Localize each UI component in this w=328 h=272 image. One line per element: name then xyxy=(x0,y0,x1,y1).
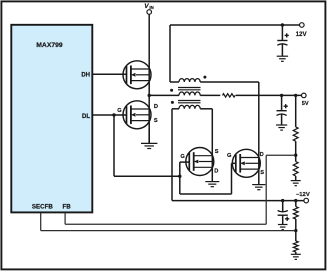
junction dot 12V cap xyxy=(281,23,284,26)
pin label G of Q4 xyxy=(227,153,232,159)
wire 12V rail vertical drop xyxy=(169,25,171,82)
transistor Q1 high-side MOSFET xyxy=(123,61,151,89)
transistor Q4 secondary rectifier MOSFET xyxy=(232,149,260,177)
pin label D of Q2 xyxy=(154,104,158,110)
wire DL branch horizontal to Q3 gate node xyxy=(114,175,180,177)
svg-text:12V: 12V xyxy=(296,31,308,38)
wire bottom winding to Q3 xyxy=(211,109,213,182)
pin label G of Q2 xyxy=(117,108,122,114)
svg-text:DL: DL xyxy=(82,114,90,120)
terminal 12V xyxy=(300,23,305,28)
svg-text:G: G xyxy=(227,153,232,159)
wire FB sense xyxy=(65,155,295,224)
junction dot -12V cap xyxy=(281,199,284,202)
wire 5V divider top xyxy=(295,95,297,127)
transistor Q2 synchronous rectifier MOSFET xyxy=(123,101,151,129)
pin label S of Q3 xyxy=(215,149,219,155)
wire up to Q3 gate xyxy=(180,162,189,177)
resistor R1 in 5V path xyxy=(223,94,236,97)
ground under R3 xyxy=(291,181,301,186)
transistor Q3 secondary rectifier MOSFET xyxy=(186,148,214,176)
junction dot at Q3 gate node xyxy=(178,175,181,178)
svg-text:MAX799: MAX799 xyxy=(36,42,63,49)
transformer T1 bottom winding xyxy=(172,105,212,108)
junction dot on DL wire xyxy=(112,113,115,116)
ground under R5 xyxy=(291,254,301,259)
wire to ground xyxy=(295,252,297,254)
wire -12V rail xyxy=(172,200,304,202)
capacitor C2 5V output xyxy=(277,95,287,125)
transformer T1 middle winding (buck inductor) xyxy=(149,92,220,95)
pin label D of Q3 xyxy=(214,168,218,174)
polarity dot top winding xyxy=(203,76,206,79)
node LX junction dot xyxy=(148,94,151,97)
svg-text:D: D xyxy=(214,168,218,174)
wire to ground xyxy=(295,176,297,181)
pin label S of Q2 xyxy=(154,118,158,124)
polarity dot bottom winding xyxy=(171,101,174,104)
junction dot 5V divider xyxy=(294,94,297,97)
IC U1 label MAX799 xyxy=(36,42,63,49)
svg-text:G: G xyxy=(180,154,185,160)
resistor R4 upper of lower divider xyxy=(293,207,298,219)
ground under Q3 xyxy=(205,182,219,187)
ground under C2 xyxy=(276,125,287,130)
svg-text:–12V: –12V xyxy=(296,192,310,198)
polarity dot middle winding xyxy=(170,89,173,92)
plus sign C3 xyxy=(285,217,289,221)
transformer T1 primary-top winding xyxy=(170,79,259,82)
ground under Q4 xyxy=(252,185,265,190)
ground under Q2 source xyxy=(141,129,157,149)
pin label D of Q4 xyxy=(260,152,264,158)
wire DH to Q1 gate xyxy=(93,73,127,75)
label -12V xyxy=(296,192,310,198)
junction dot 5V cap xyxy=(280,94,283,97)
wire down and right to Q4 gate xyxy=(180,163,236,194)
svg-text:FB: FB xyxy=(62,204,71,211)
capacitor C3 -12V output xyxy=(278,201,288,225)
wire 12V rail xyxy=(170,24,300,26)
pin label G of Q3 xyxy=(180,154,185,160)
ground under C1 xyxy=(277,56,288,61)
transformer T1 core lines upper xyxy=(178,88,201,90)
transformer T1 core lines lower xyxy=(178,101,201,103)
plus sign C1 xyxy=(285,33,289,37)
junction dot -12V divider xyxy=(294,199,297,202)
wire 5V rail xyxy=(236,94,302,96)
svg-text:S: S xyxy=(215,149,219,155)
pin label S of Q4 xyxy=(260,170,264,176)
label 5V xyxy=(302,101,309,107)
wire to divider tap xyxy=(295,141,297,161)
pin SECFB label xyxy=(32,204,54,211)
svg-text:IN: IN xyxy=(149,5,153,10)
junction dot lower divider tap xyxy=(294,229,297,232)
terminal -12V xyxy=(304,198,309,203)
wire to lower tap xyxy=(295,219,297,241)
svg-text:D: D xyxy=(260,152,264,158)
resistor R5 lower of lower divider xyxy=(293,241,298,252)
IC U1 MAX799 body xyxy=(11,25,92,213)
svg-text:G: G xyxy=(117,108,122,114)
svg-text:D: D xyxy=(154,104,158,110)
capacitor C1 12V output xyxy=(277,25,287,56)
svg-text:5V: 5V xyxy=(302,101,309,107)
node VIN label xyxy=(144,3,153,10)
resistor R3 lower of upper divider xyxy=(293,162,298,177)
pin DH label xyxy=(81,73,90,79)
svg-text:S: S xyxy=(260,170,264,176)
terminal VIN xyxy=(147,10,152,15)
wire DL branch down xyxy=(113,115,115,176)
wire top winding to Q4 drain xyxy=(258,82,260,185)
wire -12V divider top xyxy=(295,201,297,207)
wire VIN to Q1 drain / main vertical xyxy=(148,14,150,142)
resistor R2 upper divider xyxy=(293,127,298,141)
pin FB label xyxy=(62,204,71,211)
wire bottom winding left lead down xyxy=(171,109,173,201)
wire SECFB sense xyxy=(41,213,296,231)
junction dot divider tap xyxy=(294,154,297,157)
label 12V xyxy=(296,31,308,38)
svg-text:SECFB: SECFB xyxy=(32,204,54,211)
ground under C3 xyxy=(278,225,288,230)
pin DL label xyxy=(82,114,90,120)
terminal 5V xyxy=(302,93,307,98)
wire DL to Q2 gate xyxy=(93,114,127,116)
svg-text:S: S xyxy=(154,118,158,124)
plus sign C2 xyxy=(284,104,288,108)
svg-text:DH: DH xyxy=(81,73,90,79)
